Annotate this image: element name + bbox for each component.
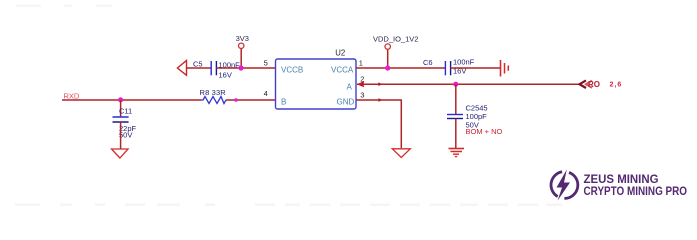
wire pin3 (356, 100, 401, 148)
svg-text:VDD_IO_1V2: VDD_IO_1V2 (373, 35, 418, 44)
svg-text:1: 1 (359, 59, 363, 68)
junction after R8 (234, 98, 238, 102)
svg-text:C5: C5 (193, 60, 203, 69)
wire pin1 to C6 (356, 67, 445, 69)
op IC U2 body (276, 48, 357, 109)
junction VDD/pin1 (385, 65, 390, 70)
wire C11 bottom (120, 122, 122, 149)
faint top artifacts (16, 5, 112, 8)
svg-text:C11: C11 (119, 107, 132, 116)
off-sheet port RO (580, 80, 623, 89)
svg-text:B: B (281, 98, 286, 107)
svg-text:16V: 16V (219, 71, 232, 80)
wire C6 to ground (451, 67, 500, 69)
ground (triangle) under U2 (392, 149, 410, 158)
resistor R8 (200, 88, 227, 103)
svg-text:GND: GND (337, 98, 355, 107)
svg-text:100nF: 100nF (453, 58, 475, 67)
ground (triangle) under C11 (112, 149, 129, 158)
junction 3V3/C5 (238, 65, 243, 70)
wire A net (357, 83, 580, 85)
wire C5 to pin5 (216, 67, 275, 69)
ground (earth bars) under C2545 (449, 149, 465, 157)
faint bottom artifacts (15, 204, 562, 207)
capacitor C11 (113, 107, 137, 140)
svg-text:C6: C6 (423, 58, 433, 67)
power port 3V3 (236, 34, 249, 68)
svg-text:RO: RO (588, 80, 600, 89)
capacitor C5 (193, 60, 240, 80)
svg-text:2,6: 2,6 (610, 81, 623, 88)
svg-text:U2: U2 (335, 48, 345, 57)
junction RXD/C11 (118, 97, 123, 102)
wire R8 to pin4 (226, 99, 275, 101)
junction A/C2545 (453, 82, 458, 87)
svg-text:3V3: 3V3 (236, 34, 249, 43)
wire C2545 top (455, 84, 457, 114)
port arrow left of C5 (177, 61, 186, 76)
svg-text:ZEUS MINING: ZEUS MINING (584, 174, 659, 186)
svg-text:4: 4 (264, 89, 268, 98)
svg-text:VCCB: VCCB (281, 66, 303, 75)
Zeus Mining logo (551, 170, 687, 201)
wire arrow to C5 (187, 67, 212, 69)
svg-text:A: A (347, 83, 353, 92)
ground (sideways bars) right of C6 (501, 60, 509, 77)
wire C2545 bottom (455, 119, 457, 149)
capacitor C2545 (447, 104, 503, 137)
svg-text:CRYPTO MINING PRO: CRYPTO MINING PRO (584, 186, 688, 198)
wire C11 top (120, 100, 122, 117)
svg-text:3: 3 (360, 91, 364, 100)
direction mark on pin3 wire (378, 98, 383, 102)
svg-text:RXD: RXD (64, 91, 80, 100)
pin2 input arrow (357, 81, 364, 87)
svg-text:BOM + NO: BOM + NO (466, 127, 503, 136)
svg-text:VCCA: VCCA (331, 66, 354, 75)
wire RXD net horizontal (62, 99, 201, 101)
direction mark on A wire (378, 82, 383, 86)
svg-text:5: 5 (264, 59, 268, 68)
power port VDD_IO_1V2 (373, 35, 418, 68)
capacitor C6 (423, 58, 475, 76)
